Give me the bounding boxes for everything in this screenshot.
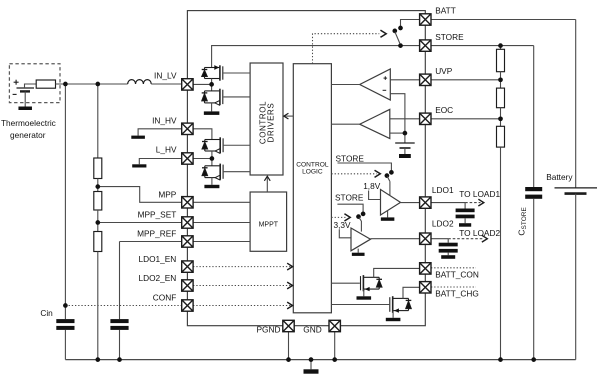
svg-text:EOC: EOC [435, 105, 453, 115]
svg-text:BATT_CHG: BATT_CHG [435, 289, 479, 299]
svg-text:UVP: UVP [435, 66, 453, 76]
svg-text:LDO2_EN: LDO2_EN [138, 273, 176, 283]
svg-text:IN_LV: IN_LV [154, 70, 177, 80]
svg-text:MPP: MPP [158, 190, 176, 200]
svg-text:MPP_REF: MPP_REF [137, 229, 176, 239]
svg-text:Cin: Cin [40, 308, 53, 318]
svg-text:STORE: STORE [336, 153, 365, 163]
svg-text:MPPT: MPPT [259, 222, 279, 229]
svg-text:GND: GND [303, 325, 321, 335]
svg-text:STORE: STORE [335, 193, 364, 203]
svg-text:DRIVERS: DRIVERS [266, 103, 275, 143]
svg-text:Thermoelectric: Thermoelectric [1, 118, 56, 128]
svg-text:BATT_CON: BATT_CON [435, 270, 479, 280]
svg-text:Battery: Battery [546, 172, 573, 182]
svg-text:LOGIC: LOGIC [302, 169, 323, 176]
svg-text:LDO1_EN: LDO1_EN [138, 254, 176, 264]
svg-text:generator: generator [10, 130, 46, 140]
svg-text:CONTROL: CONTROL [296, 161, 329, 168]
svg-text:MPP_SET: MPP_SET [138, 209, 177, 219]
svg-text:LDO2: LDO2 [432, 219, 454, 229]
svg-text:LDO1: LDO1 [432, 185, 454, 195]
svg-text:PGND: PGND [257, 325, 281, 335]
svg-text:1,8V: 1,8V [363, 181, 381, 191]
svg-text:CONF: CONF [153, 293, 177, 303]
svg-text:STORE: STORE [435, 32, 464, 42]
svg-text:TO LOAD2: TO LOAD2 [459, 228, 500, 238]
svg-text:BATT: BATT [435, 6, 456, 16]
svg-text:3,3V: 3,3V [334, 220, 352, 230]
svg-text:TO LOAD1: TO LOAD1 [459, 189, 500, 199]
svg-text:IN_HV: IN_HV [152, 116, 177, 126]
svg-text:L_HV: L_HV [156, 145, 177, 155]
